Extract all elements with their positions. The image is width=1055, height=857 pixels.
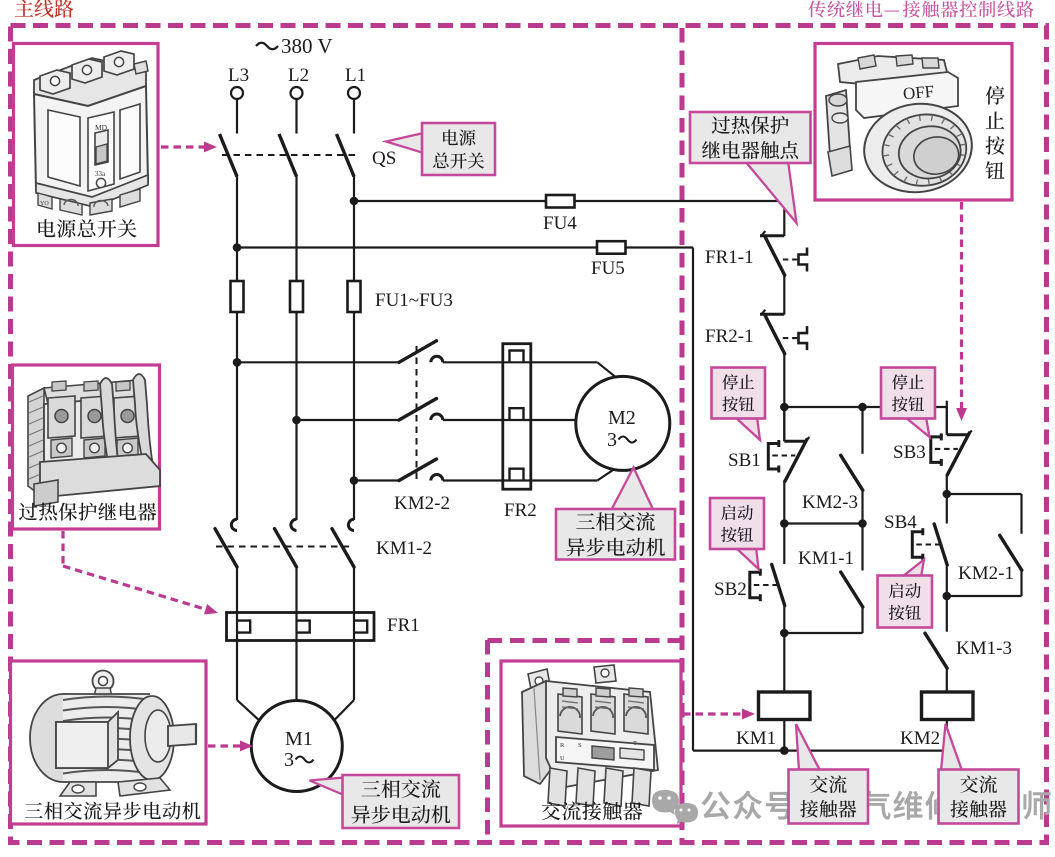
contact KM1-2 pole 2 <box>275 519 297 567</box>
svg-text:QS: QS <box>372 148 396 169</box>
svg-text:L3: L3 <box>228 65 249 86</box>
label KM2-1 <box>958 563 1014 584</box>
wire: SB4 feed <box>946 494 948 524</box>
node: junction SB4 top <box>943 490 952 499</box>
svg-text:SB4: SB4 <box>884 512 917 533</box>
svg-text:U: U <box>560 755 565 762</box>
motor M2 <box>576 376 670 470</box>
photo box: stop push button <box>815 44 1012 201</box>
svg-text:FU5: FU5 <box>591 258 625 279</box>
svg-text:SB1: SB1 <box>728 450 761 471</box>
wire: FR1 to M1 middle <box>295 641 297 702</box>
label FR1 <box>387 615 420 636</box>
label: 交流接触器 under contactor photo <box>542 802 642 821</box>
svg-text:3: 3 <box>607 429 617 451</box>
wire: L3 drop to QS <box>236 99 238 133</box>
fuse FU2 (L2) <box>290 281 303 312</box>
contact FR2-1 (thermal relay NC contact) <box>760 310 807 354</box>
wire: L2 drop to QS <box>295 99 297 133</box>
wire: KM2-1 bottom <box>947 570 1022 596</box>
svg-text:SB3: SB3 <box>893 442 926 463</box>
svg-text:KM1-2: KM1-2 <box>376 538 432 559</box>
wire: SB1 feed <box>783 407 785 441</box>
coil KM2 <box>922 692 974 720</box>
svg-text:L1: L1 <box>345 65 366 86</box>
callout: 三相交流异步电动机 (M1) <box>310 775 460 828</box>
label KM2-3 <box>802 492 858 513</box>
callout: 停止按钮 (right) <box>881 368 935 438</box>
label SB4 <box>884 512 917 533</box>
wire: control left rail (from FU5) <box>692 248 694 751</box>
wire: top rail corner to SB3 <box>946 407 947 435</box>
label KM1 <box>736 728 776 749</box>
arrow: breaker photo to QS <box>161 142 217 153</box>
node L1 terminal <box>345 65 366 99</box>
contact FR1-1 (thermal relay NC contact) <box>760 231 807 275</box>
svg-text:YO: YO <box>40 201 49 207</box>
label: ~380V supply <box>256 34 333 58</box>
wire: KM2 coil to return rail <box>946 720 948 752</box>
wire: KM2-2 row3 horizontal <box>354 479 502 481</box>
wire: KM1 coil to return rail <box>783 720 785 751</box>
photo box: three-phase AC motor <box>11 661 207 824</box>
wire: L2 KM1-2 to FR1 <box>295 566 297 613</box>
callout: 电源总开关 (power main switch) <box>386 123 495 175</box>
wire: L1 drop to QS <box>353 99 355 133</box>
label KM1-2 <box>376 538 432 559</box>
svg-text:T: T <box>633 740 637 747</box>
svg-text:FR1-1: FR1-1 <box>705 247 754 268</box>
illustration: molded-case circuit breaker <box>34 51 148 215</box>
button SB3 (stop, NC) <box>931 401 972 475</box>
switch QS: three-pole knife switch <box>220 134 357 177</box>
wire: FR2 row2 to M2 <box>531 419 577 421</box>
photo box: power main switch (circuit breaker) <box>14 44 159 246</box>
arrow: thermal relay photo to FR1 <box>63 531 220 618</box>
linkage: KM1-2 dashed tie <box>216 546 349 548</box>
watermark: 公众号：电气维修工程师 <box>701 790 1050 819</box>
wire: KM1-1 feed <box>861 524 863 571</box>
fuse FU5 <box>597 241 626 254</box>
thermal element FR1 (heater box) <box>227 613 375 641</box>
wire: SB3 to junction <box>946 474 948 494</box>
wire: FR2 row3 to M2 <box>531 467 617 480</box>
callout: 三相交流异步电动机 (M2) <box>556 468 675 560</box>
button SB1 (stop, NC) <box>768 407 809 481</box>
label KM2-2 <box>394 493 450 514</box>
contact KM2-1 (self holding) <box>1000 535 1022 570</box>
svg-text:KM1-3: KM1-3 <box>956 638 1012 659</box>
fuse FU3 (L1) <box>348 281 361 312</box>
wire: phase L2 vertical (fuse to KM1-2) <box>295 312 297 520</box>
title: control-circuit label 传统继电—接触器控制线路 <box>808 1 1033 18</box>
wire: phase L3 vertical (QS to fuse) <box>236 176 238 283</box>
node: junction KM2-3 top <box>858 403 867 412</box>
frame: dashed box around contactor photo <box>488 640 681 840</box>
label FU1~FU3 <box>375 290 453 311</box>
contact KM1-1 (self holding) <box>841 572 863 607</box>
svg-text:OFF: OFF <box>902 82 935 104</box>
node: junction L1 / FU4 takeoff <box>350 197 359 206</box>
label: 电源总开关 under breaker photo <box>38 219 136 238</box>
callout: 交流接触器 (KM1) <box>789 724 869 824</box>
svg-text:FU1~FU3: FU1~FU3 <box>375 290 453 311</box>
label: 停止按钮 vertical beside OFF button photo <box>985 86 1004 179</box>
node: junction KM2-2 row1 on L3 <box>233 358 242 367</box>
label FU4 <box>543 213 577 234</box>
svg-text:3: 3 <box>284 749 294 771</box>
svg-text:KM1-1: KM1-1 <box>798 548 854 569</box>
contact KM1-3 (interlock) <box>925 633 947 668</box>
svg-text:FR2: FR2 <box>504 500 537 521</box>
wire: L1 KM1-2 to FR1 <box>353 566 355 613</box>
wire: KM1-3 to KM2 coil <box>946 668 948 693</box>
wire: KM1-1 bottom to junction <box>784 607 862 634</box>
svg-text:M2: M2 <box>608 407 636 429</box>
illustration: thermal overload relay <box>28 374 160 506</box>
svg-text:S: S <box>578 742 582 749</box>
arrow: motor photo to M1 <box>208 741 253 752</box>
label FR2-1 <box>705 326 754 347</box>
wire: phase L1 vertical (fuse to KM1-2) <box>353 312 355 520</box>
wire: KM2-1 branch top <box>947 494 1022 534</box>
photo box: AC contactor <box>501 661 681 826</box>
motor M1 <box>251 701 342 792</box>
wire: SB1 to mid junction <box>783 481 785 524</box>
svg-text:FU4: FU4 <box>543 213 577 234</box>
watermark: wechat logo <box>652 790 698 825</box>
svg-text:FR1: FR1 <box>387 615 420 636</box>
wire: SB2 to KM1 coil <box>783 605 785 692</box>
label KM1-3 <box>956 638 1012 659</box>
node: junction KM1-1 top <box>858 519 867 528</box>
fuse FU1 (L3) <box>231 281 244 312</box>
wire: FU5 branch to control circuit <box>237 246 693 248</box>
frame: dashed divider between main and control circuit <box>680 28 685 841</box>
label FR1-1 <box>705 247 754 268</box>
wire: FU4 branch to control circuit <box>354 200 784 202</box>
illustration: three-phase asynchronous motor <box>30 671 196 797</box>
svg-text:FR2-1: FR2-1 <box>705 326 754 347</box>
label: 三相交流异步电动机 under motor photo <box>25 802 201 820</box>
button SB2 (start, NO) <box>750 565 785 606</box>
label QS <box>372 148 396 169</box>
wire: FR1 to M1 right <box>333 641 355 723</box>
illustration: OFF push button <box>826 55 978 199</box>
callout: 停止按钮 (left) <box>712 368 766 441</box>
contact KM1-2 pole 1 <box>215 519 237 567</box>
wire: FR2 row1 to M2 <box>531 362 617 378</box>
wire: return rail <box>693 749 948 751</box>
wire: KM2-3 to mid junction <box>861 490 863 524</box>
wire: KM2-2 row2 horizontal <box>297 419 503 421</box>
contact KM2-2 pole 1 <box>399 341 443 363</box>
svg-text:KM2: KM2 <box>900 728 940 749</box>
callout: 交流接触器 (KM2) <box>939 724 1019 824</box>
button SB4 (start, NO) <box>912 524 947 565</box>
contact KM1-2 pole 3 <box>332 519 354 567</box>
label SB3 <box>893 442 926 463</box>
node: junction KM2-2 row2 on L2 <box>292 416 301 425</box>
node L2 terminal <box>288 65 309 99</box>
coil KM1 <box>759 692 811 720</box>
svg-text:KM2-2: KM2-2 <box>394 493 450 514</box>
svg-text:33a: 33a <box>95 170 106 178</box>
wire: SB2 feed <box>783 524 785 565</box>
wire: KM2-3 feed <box>861 407 863 454</box>
callout: 启动按钮 (left) <box>710 498 764 569</box>
wire: top rail of KM1 branch pair <box>784 406 947 408</box>
node: junction KM2-2 row3 on L1 <box>350 476 359 485</box>
svg-text:KM2-1: KM2-1 <box>958 563 1014 584</box>
wire: phase L2 vertical (QS to fuse) <box>295 176 297 283</box>
wire: FR2-1 down to SB1 rail <box>783 353 785 407</box>
wire: phase L1 vertical (QS to fuse) <box>353 176 355 283</box>
node: junction KM1-3 top <box>943 592 952 601</box>
wire: phase L3 vertical (fuse to KM1-2) <box>236 312 238 520</box>
node: junction SB2 top <box>780 519 789 528</box>
label FU5 <box>591 258 625 279</box>
wire: FR1-1 to FR2-1 <box>783 275 785 315</box>
node: junction SB1 top <box>780 403 789 412</box>
wire: KM2-2 row1 horizontal <box>237 361 502 363</box>
wire: KM1-3 feed <box>946 596 948 632</box>
wire: SB4 to junction <box>946 565 948 597</box>
wire: FR1 to M1 left <box>237 641 261 723</box>
label FR2 <box>504 500 537 521</box>
photo box: thermal overload relay <box>13 365 160 529</box>
svg-text:R: R <box>560 742 565 749</box>
contact KM2-2 pole 2 <box>399 399 443 421</box>
callout: 启动按钮 (right) <box>878 560 933 628</box>
fuse FU4 <box>546 195 575 208</box>
contact KM2-3 (interlock) <box>841 455 863 490</box>
node L3 terminal <box>228 65 249 99</box>
svg-text:KM2-3: KM2-3 <box>802 492 858 513</box>
label: 过热保护继电器 under thermal relay photo <box>19 502 156 520</box>
wire: FU4 line corner down to FR1-1 <box>783 200 785 236</box>
svg-text:M1: M1 <box>285 728 313 750</box>
label SB1 <box>728 450 761 471</box>
svg-text:KM1: KM1 <box>736 728 776 749</box>
thermal element FR2 (heater box) <box>503 344 531 490</box>
label KM1-1 <box>798 548 854 569</box>
callout: 过热保护继电器触点 <box>690 112 811 223</box>
node: junction KM1-1 bottom <box>780 629 789 638</box>
illustration: AC contactor <box>522 665 658 806</box>
label SB2 <box>714 579 747 600</box>
label KM2 <box>900 728 940 749</box>
linkage: KM2-2 dashed tie <box>416 346 418 484</box>
wire: mid rail KM1 branch <box>784 522 862 524</box>
wire: L3 KM1-2 to FR1 <box>236 566 238 613</box>
svg-text:SB2: SB2 <box>714 579 747 600</box>
title: main-circuit label 主线路 <box>15 0 74 18</box>
arrow: stop button photo to SB3 <box>956 202 967 421</box>
node: junction L3 / FU5 takeoff <box>233 243 242 252</box>
contact KM2-2 pole 3 <box>399 459 443 481</box>
node: junction KM1 return <box>780 746 789 755</box>
svg-text:L2: L2 <box>288 65 309 86</box>
arrow: contactor photo to KM1 coil <box>683 709 755 720</box>
svg-text:380 V: 380 V <box>281 34 333 58</box>
